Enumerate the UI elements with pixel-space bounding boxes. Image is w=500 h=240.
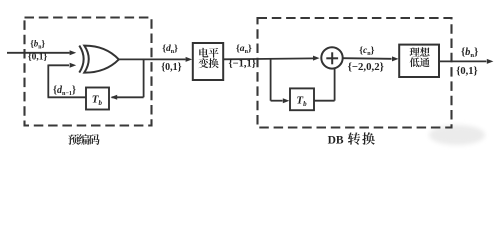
svg-text:{dn}: {dn} (162, 43, 178, 55)
svg-text:{bn}: {bn} (461, 47, 478, 59)
svg-text:{0,1}: {0,1} (28, 53, 48, 63)
svg-text:{−1,1}: {−1,1} (229, 58, 256, 69)
svg-text:{0,1}: {0,1} (161, 62, 181, 73)
svg-text:{cn}: {cn} (359, 45, 374, 57)
svg-text:{an}: {an} (236, 43, 252, 55)
svg-text:{0,1}: {0,1} (456, 66, 477, 77)
svg-text:DB: DB (328, 134, 344, 146)
svg-text:{−2,0,2}: {−2,0,2} (348, 61, 384, 73)
